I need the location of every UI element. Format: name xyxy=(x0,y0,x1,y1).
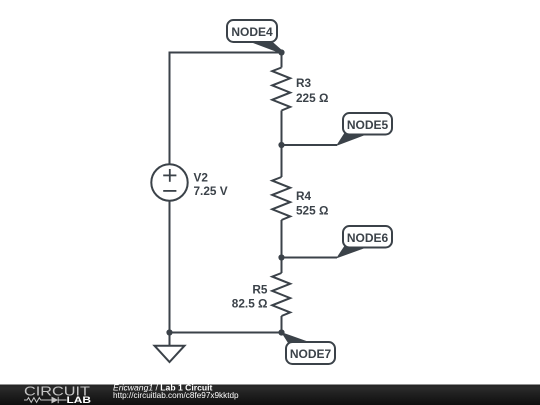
svg-text:LAB: LAB xyxy=(67,395,92,405)
svg-text:R5: R5 xyxy=(252,282,268,296)
svg-text:NODE5: NODE5 xyxy=(347,118,389,132)
svg-text:V2: V2 xyxy=(194,171,209,185)
svg-text:http://circuitlab.com/c8fe97x9: http://circuitlab.com/c8fe97x9kktdp xyxy=(113,391,239,400)
svg-text:7.25 V: 7.25 V xyxy=(194,184,228,198)
svg-text:NODE7: NODE7 xyxy=(290,347,332,361)
svg-text:NODE4: NODE4 xyxy=(231,25,273,39)
svg-text:525 Ω: 525 Ω xyxy=(296,203,328,217)
svg-text:R3: R3 xyxy=(296,76,312,90)
svg-text:225 Ω: 225 Ω xyxy=(296,91,328,105)
svg-text:82.5 Ω: 82.5 Ω xyxy=(232,297,268,311)
svg-text:NODE6: NODE6 xyxy=(347,231,389,245)
svg-text:R4: R4 xyxy=(296,189,312,203)
